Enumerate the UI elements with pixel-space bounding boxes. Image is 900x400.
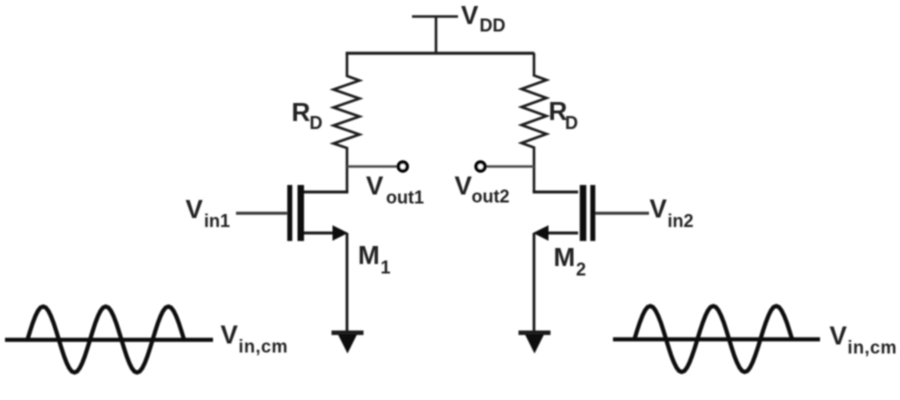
svg-text:V: V <box>221 320 239 350</box>
svg-text:2: 2 <box>576 260 586 280</box>
svg-text:M: M <box>554 242 576 272</box>
svg-text:V: V <box>366 171 384 201</box>
svg-text:in2: in2 <box>668 211 694 231</box>
svg-text:V: V <box>461 0 479 30</box>
svg-text:V: V <box>830 321 848 351</box>
svg-text:V: V <box>650 194 668 224</box>
svg-text:out2: out2 <box>472 187 510 207</box>
svg-text:in1: in1 <box>204 211 230 231</box>
svg-text:out1: out1 <box>386 188 424 208</box>
svg-text:M: M <box>358 240 380 270</box>
svg-text:D: D <box>565 113 578 133</box>
svg-text:V: V <box>455 171 473 201</box>
svg-text:D: D <box>310 113 323 133</box>
svg-text:R: R <box>292 97 311 127</box>
svg-text:DD: DD <box>480 16 506 36</box>
svg-text:in,cm: in,cm <box>848 338 898 358</box>
svg-text:1: 1 <box>381 258 391 278</box>
svg-text:V: V <box>186 194 204 224</box>
svg-text:in,cm: in,cm <box>239 337 289 357</box>
